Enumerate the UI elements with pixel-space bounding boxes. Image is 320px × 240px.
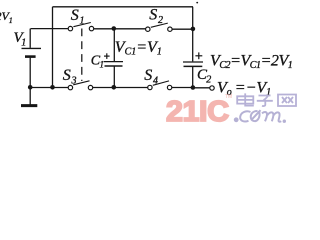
svg-text:VC1=V1: VC1=V1 bbox=[115, 39, 162, 58]
svg-text:S: S bbox=[149, 7, 157, 24]
svg-text:21IC: 21IC bbox=[166, 96, 229, 128]
svg-text:2: 2 bbox=[206, 75, 211, 86]
svg-text:S: S bbox=[71, 7, 79, 24]
svg-text:S: S bbox=[63, 67, 71, 84]
svg-text:VC2=VC1=2V1: VC2=VC1=2V1 bbox=[210, 52, 292, 71]
svg-text:TM: TM bbox=[225, 94, 232, 100]
svg-text:1: 1 bbox=[21, 38, 26, 49]
svg-text:S: S bbox=[144, 67, 152, 84]
svg-text:1: 1 bbox=[80, 15, 85, 26]
svg-text:4: 4 bbox=[153, 75, 158, 86]
svg-text:2: 2 bbox=[158, 15, 163, 26]
svg-text:1: 1 bbox=[9, 16, 13, 25]
svg-text:3: 3 bbox=[71, 75, 77, 86]
svg-text:1: 1 bbox=[100, 59, 105, 69]
